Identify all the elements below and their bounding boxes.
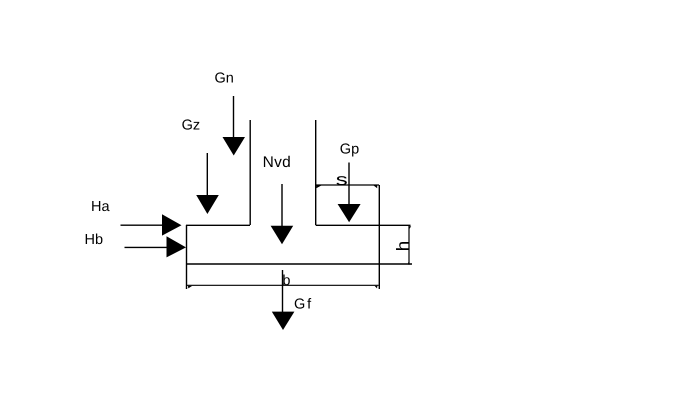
force arrow Gz [196, 153, 219, 214]
wire: footing top edge left segment [186, 224, 250, 226]
dimension line h [408, 225, 411, 264]
label Gp [340, 142, 359, 158]
wire: wall left line [249, 120, 251, 225]
svg-text:s: s [336, 171, 348, 189]
label h (rotated) [393, 241, 413, 251]
svg-text:Gp: Gp [340, 142, 359, 158]
label s [336, 171, 348, 189]
label Ha [91, 199, 110, 215]
wire: footing left edge with extension [186, 225, 188, 289]
force arrow Ha [121, 214, 182, 235]
dimension line b [187, 285, 379, 288]
svg-text:Gf: Gf [294, 297, 313, 313]
svg-text:Ha: Ha [91, 199, 110, 215]
wire: wall right line [315, 120, 317, 225]
dimension line s [316, 185, 379, 188]
wire: right edge from s line down through footing to b extension [378, 185, 380, 289]
force arrow Gp [338, 163, 361, 223]
svg-text:h: h [393, 241, 413, 251]
label b [282, 273, 290, 289]
label Hb [85, 232, 104, 248]
label Gf [294, 297, 313, 313]
svg-text:Nvd: Nvd [263, 154, 291, 171]
svg-text:Gz: Gz [182, 118, 201, 134]
wire: footing bottom edge + h extension [186, 263, 412, 265]
force arrow Hb [125, 236, 187, 257]
wire: footing top edge right segment + h extension [316, 224, 411, 226]
svg-text:Gn: Gn [215, 71, 234, 87]
force arrow Gn [223, 96, 246, 156]
label Gz [182, 118, 201, 134]
force arrow Nvd [271, 184, 294, 244]
label Nvd [263, 154, 291, 171]
force arrow Gf [272, 270, 295, 330]
label Gn [215, 71, 234, 87]
svg-text:b: b [282, 273, 290, 289]
svg-text:Hb: Hb [85, 232, 104, 248]
